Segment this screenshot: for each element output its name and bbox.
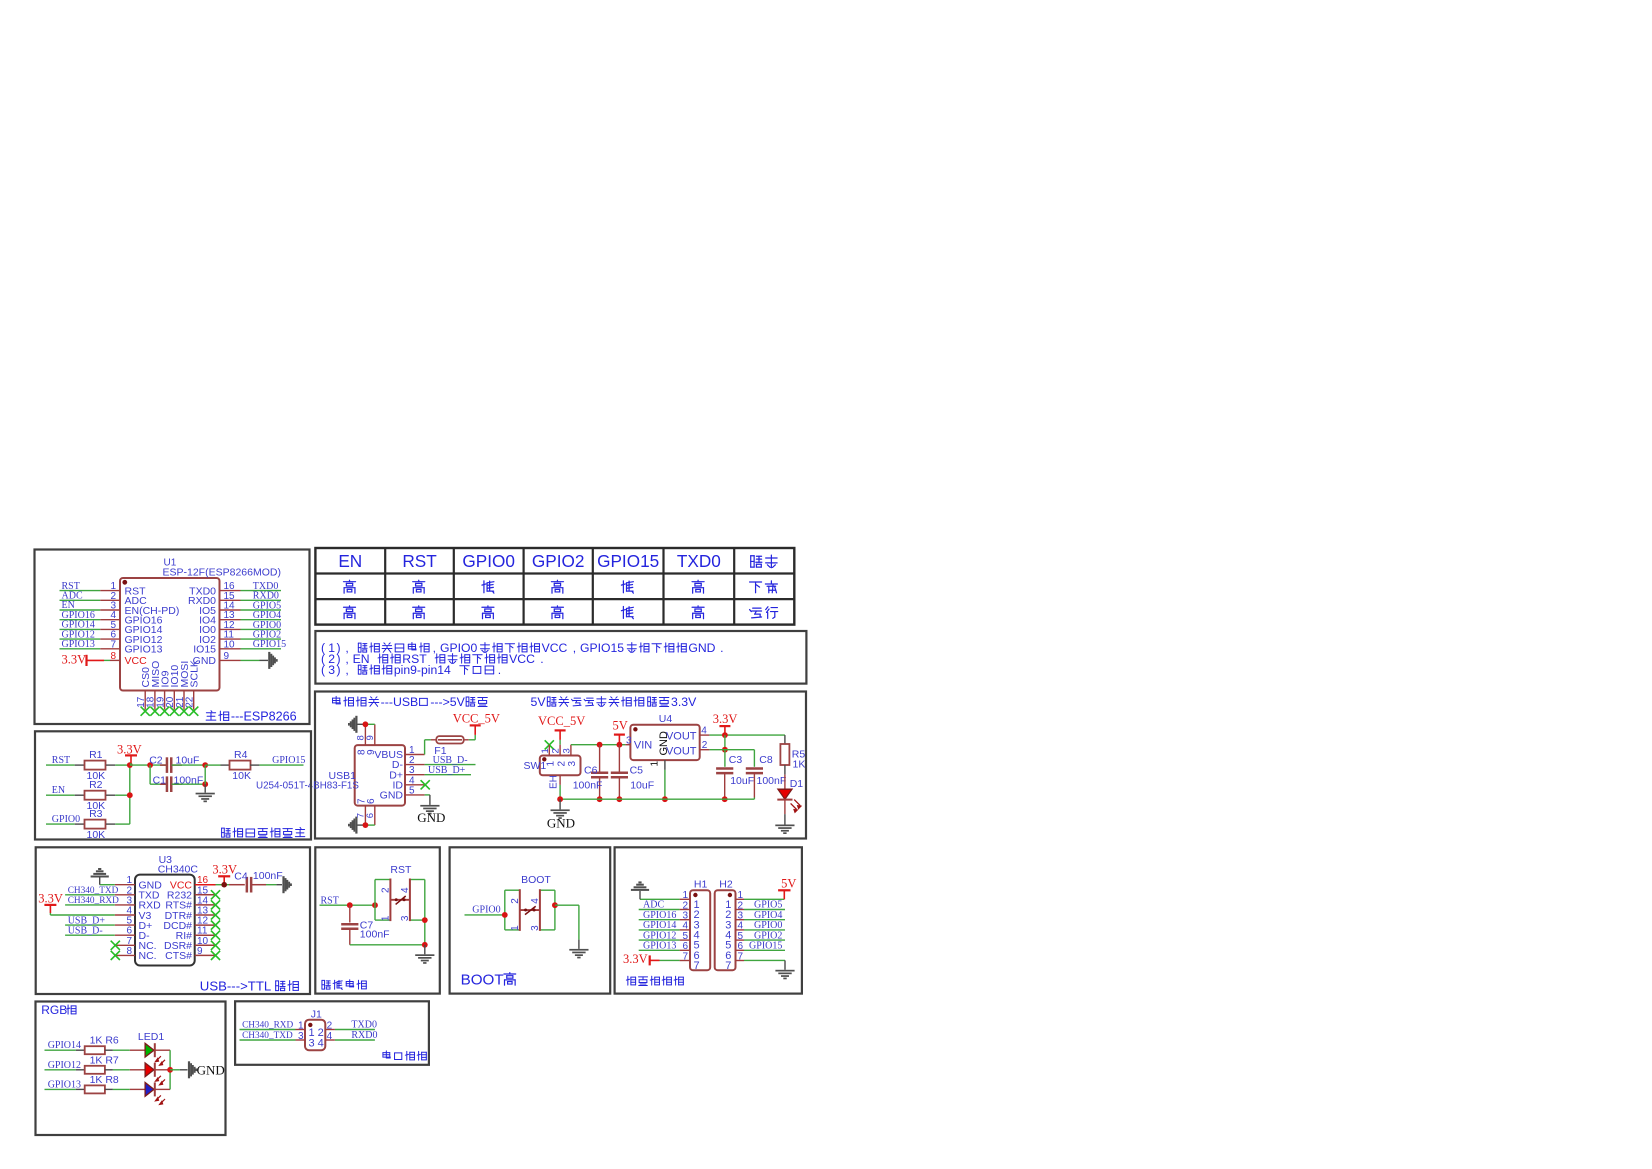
svg-text:9: 9 [224,651,230,662]
J1 first pin dot [308,1023,312,1027]
USB1 pin 3 stub [405,774,425,776]
USB1 pin 1 stub [405,754,425,756]
svg-text:GPIO15: GPIO15 [253,639,286,650]
svg-text:U254-051T-4BH83-F1S: U254-051T-4BH83-F1S [256,781,359,792]
junction VOUT2 [722,747,728,753]
wire VOUT pin4 to R5 [709,734,785,736]
svg-text:): ) [337,663,341,677]
junction C2 right [202,762,208,768]
svg-text:6: 6 [366,798,377,804]
svg-text:GPIO13: GPIO13 [643,941,676,952]
svg-text:GND: GND [197,1063,225,1078]
ground flag (LED) [188,1061,198,1078]
svg-text:10K: 10K [232,770,251,782]
svg-text:C6: C6 [584,765,598,777]
H2 pin 1 stub [736,898,745,900]
junction U4 GND rail [662,796,668,802]
wire to LED [113,1049,130,1051]
svg-text:1K R6: 1K R6 [90,1035,119,1047]
table column line [453,548,455,625]
svg-text:C8: C8 [759,754,773,766]
svg-text:--->5V: --->5V [430,695,465,709]
svg-text:USB_D-: USB_D- [68,925,103,936]
svg-text:GPIO13: GPIO13 [125,644,163,656]
wire C7 bottom [350,944,425,946]
U1 pin 3 wire [60,609,101,611]
wire USB1 GND pin [425,794,430,796]
svg-text:H2: H2 [719,879,733,891]
table cell 高 [344,606,356,619]
svg-text:10: 10 [224,639,236,650]
svg-text:GPIO15: GPIO15 [749,941,782,952]
svg-text:6: 6 [365,813,376,818]
svg-text:(: ( [321,663,325,677]
table row line [315,598,794,600]
U3 pin 5 stub [115,924,135,926]
table cell 高 [551,580,563,593]
svg-text:7: 7 [738,951,744,962]
SW1 pin 2 stub [559,745,561,756]
junction C5 bottom [617,796,623,802]
H1 pin 2 stub [680,909,690,911]
U3 pin 7 stub [115,944,135,946]
svg-text:3: 3 [626,736,632,747]
ground symbol (reset) [424,945,426,955]
svg-text:2: 2 [327,1021,333,1032]
ground symbol (power rail) [559,799,561,809]
svg-text:VOUT: VOUT [666,730,697,742]
svg-text:R4: R4 [234,749,248,761]
section title 主控---ESP8266 [206,711,216,721]
svg-text:SCLK: SCLK [189,660,201,687]
svg-text:100nF: 100nF [573,780,603,792]
wire CH340_RXD [240,1029,296,1031]
U3 pin 16 stub [195,884,216,886]
svg-text:RXD0: RXD0 [351,1030,377,1041]
U1 pin 12 wire [220,628,241,630]
USB1 pin 8 stub [364,724,366,745]
svg-text:7: 7 [110,639,116,650]
U3 pin 11 stub [195,934,216,936]
junction button right [422,917,428,923]
USB1 pin 7 stub [364,806,366,826]
U1 pin 17 stub [144,691,146,710]
U3 pin 8 stub [115,954,135,956]
svg-text:CH340_RXD: CH340_RXD [68,896,119,906]
svg-text:3: 3 [530,925,541,931]
header H2 body [715,890,736,970]
ground symbol (boot) [569,949,588,959]
svg-text:10K: 10K [87,829,106,841]
svg-text:GND: GND [547,816,575,831]
svg-text:3 4: 3 4 [309,1038,324,1050]
SW1 pin 3 stub [570,745,572,756]
table cell 高 [482,606,494,619]
wire VOUT pin2 to C8 [709,749,754,751]
junction 5V/VIN [617,742,623,748]
wire H2 pin7 gnd [744,959,785,961]
svg-text:4: 4 [327,1031,333,1042]
junction bottom shell [363,822,369,828]
resistor R5 [784,735,786,744]
junction C2 left [147,762,153,768]
svg-text:GPIO0: GPIO0 [462,551,515,571]
table column line [733,548,735,625]
U1 pin 16 wire [220,590,241,592]
svg-text:EN: EN [338,551,362,571]
svg-text:GPIO15: GPIO15 [272,755,305,766]
LED cathode bar [154,1043,156,1057]
svg-text:1K R8: 1K R8 [90,1074,119,1086]
H1 pin 1 stub [680,898,690,900]
table cell 高 [413,606,425,619]
U1 pin 15 wire [220,599,241,601]
H2 pin 7 stub [736,960,745,962]
junction C6 top [597,742,603,748]
table cell 低 [621,606,633,618]
pushbutton BOOT [504,890,506,930]
svg-text:5V: 5V [781,877,796,891]
wire USB_D- (U3) [65,934,115,936]
USB1 pin 5 stub [405,794,425,796]
U3 pin 12 stub [195,924,216,926]
svg-text:---ESP8266: ---ESP8266 [231,710,297,724]
no-connect X pin 22 [189,707,198,716]
svg-text:GND: GND [417,810,445,825]
table cell 运行 [750,608,762,618]
USB connector USB1 body [355,745,405,806]
svg-text:VCC: VCC [542,641,568,655]
no-connect X (SW1 pin1) [545,740,554,749]
LED #00b400 triangle [145,1043,154,1057]
svg-text:R2: R2 [89,779,103,791]
wire V3 pin4 [50,914,114,916]
junction VOUT4/3.3V [722,732,728,738]
ground symbol (H2 pin7) [775,970,794,980]
ground flag (USB1 shell top) [358,723,366,725]
table cell 下载 [750,582,762,593]
vertical 3.3V pull-up rail [129,765,131,824]
ground symbol (D1) [775,825,794,835]
wire RXD0 [335,1039,375,1041]
wire fuse to VCC_5V [469,739,475,741]
wire H2 GPIO0 [744,929,785,931]
svg-text:U4: U4 [659,713,673,725]
junction LED common [167,1067,173,1073]
no-connect X pin 20 [170,707,179,716]
U1 pin 22 stub [193,691,195,710]
capacitor C2 [160,764,167,766]
LED cathode bar [154,1063,156,1077]
svg-text:.: . [540,652,543,666]
svg-text:4: 4 [530,898,541,904]
H2 pin 3 stub [736,919,745,921]
svg-text:7: 7 [682,951,688,962]
USB1 pin 2 stub [405,764,425,766]
U1 pin 9 wire [220,659,241,661]
ESP module U1 body [120,578,220,691]
svg-text:IO15: IO15 [193,644,216,656]
wire U3 VCC to C4 [216,884,230,886]
J1 pin stubs row [296,1039,306,1041]
table cell 高 [413,580,425,593]
table column line [592,548,594,625]
boot box [450,847,611,993]
no-connect X pin 18 [150,707,159,716]
junction C1 right [202,781,208,787]
svg-text:ESP-12F(ESP8266MOD): ESP-12F(ESP8266MOD) [163,567,281,579]
U1 pin 10 wire [220,648,241,650]
requirements box [35,731,311,839]
wire GPIO13 [45,1088,76,1090]
wire GPIO12 [45,1069,76,1071]
svg-text:C3: C3 [729,754,743,766]
LED emission arrows [156,1056,166,1065]
resistor R2 [46,794,75,796]
no-connect X pin 17 [141,707,150,716]
svg-text:3: 3 [400,915,411,921]
svg-text:5V: 5V [531,695,547,709]
svg-text:USB_D+: USB_D+ [428,765,466,776]
svg-text:2: 2 [551,748,562,753]
no-connect X (USB1 ID) [421,780,430,789]
wire H1 GPIO12 [639,939,680,941]
svg-text:CH340C: CH340C [158,864,199,876]
svg-text:C5: C5 [630,765,644,777]
wire CH340_RXD [65,904,115,906]
U3 pin 13 stub [195,914,216,916]
svg-text:5: 5 [409,785,415,796]
table column line [662,548,664,625]
wire H2 GPIO15 [744,949,785,951]
U3 pin 1 stub [115,884,135,886]
wire H1 ADC [639,909,680,911]
capacitor C6 [599,745,601,773]
wire VBUS to fuse [424,740,426,755]
table cell 低 [482,581,494,593]
svg-text:100nF: 100nF [757,775,787,787]
jumper box [235,1001,429,1065]
section box U1 main controller [35,550,310,725]
U1 pin 21 stub [183,691,185,710]
wire R1 to C2 [130,764,167,766]
U1 pin 7 wire [60,648,101,650]
svg-text:GPIO15: GPIO15 [597,551,659,571]
svg-text:H1: H1 [694,879,708,891]
table cell 高 [551,606,563,619]
no-connect X U3 pin 12 [211,921,220,930]
no-connect X U3 pin 10 [211,941,220,950]
LED #2020c8 triangle [145,1083,154,1097]
svg-text:1K: 1K [793,759,806,771]
wire H1 GPIO13 [639,949,680,951]
wire D1 to ground [784,814,786,824]
svg-text:VIN: VIN [634,740,652,752]
ground flag (USB1 shell bottom) [358,824,366,826]
reset circuit box [315,847,440,993]
U1 pin 2 wire [60,599,101,601]
wire to LED [113,1069,130,1071]
wire H1 pin1 gnd [640,898,680,900]
J1 pin stubs row [296,1029,306,1031]
svg-text:CTS#: CTS# [165,950,192,962]
svg-text:1K R7: 1K R7 [90,1054,119,1066]
header box [615,847,802,993]
common cathode wire [169,1050,171,1089]
LED emission arrows [156,1076,166,1085]
svg-text:RST: RST [390,864,412,876]
svg-text:---USB: ---USB [381,695,419,709]
svg-text:1: 1 [380,915,391,921]
svg-text:pin9-pin14: pin9-pin14 [394,663,451,677]
junction C3 rail [722,796,728,802]
wire H2 pin1 5V [744,898,784,900]
power flag VCC_5V [470,724,481,726]
jumper J1 body [305,1020,325,1050]
wire GPIO0 in [465,914,505,916]
USB1 pin 4 stub [405,784,425,786]
table column line [522,548,524,625]
svg-text:1: 1 [650,761,661,767]
no-connect X U3 pin 9 [211,951,220,960]
svg-text:BOOT: BOOT [461,972,504,989]
U1 pin 19 stub [164,691,166,710]
svg-text:9: 9 [365,735,376,740]
svg-text:C2: C2 [149,755,163,767]
junction U3 VCC [221,882,227,888]
LED D1 [784,775,786,790]
wire RST in [320,904,376,906]
table header 模式 [751,556,762,567]
svg-text:2: 2 [702,740,708,751]
capacitor C1 [160,783,167,785]
svg-text:EN: EN [353,652,370,666]
svg-text:C4: C4 [234,871,248,883]
svg-text:C1: C1 [153,775,167,787]
svg-text:GND: GND [688,641,715,655]
pushbutton RST [374,880,376,921]
fuse F1 [431,739,436,741]
table mode truth box [315,548,794,625]
H2 first pin dot [728,893,732,897]
svg-text:3.3V: 3.3V [713,712,738,726]
svg-text:3.3V: 3.3V [623,952,648,966]
capacitor C7 [349,905,351,922]
svg-text:GPIO0: GPIO0 [440,641,477,655]
wire H2 GPIO5 [744,909,785,911]
svg-text:VCC_5V: VCC_5V [453,712,500,726]
wire shell join bottom [365,824,374,826]
resistor R6 [76,1049,85,1051]
svg-text:7: 7 [694,960,700,972]
U3 pin 9 stub [195,954,216,956]
USB1 pin 9 stub [374,724,376,745]
svg-text:TXD0: TXD0 [677,551,721,571]
svg-text:100nF: 100nF [253,870,283,882]
U3 pin 14 stub [195,904,216,906]
U1 pin 6 wire [60,638,101,640]
svg-text:3.3V: 3.3V [38,892,63,906]
LED emission arrows [156,1095,166,1104]
svg-text:GPIO2: GPIO2 [532,551,585,571]
wire USB_D+ (U3) [65,924,115,926]
H1 pin 6 stub [680,949,690,951]
svg-text:USB--->TTL: USB--->TTL [200,979,271,994]
svg-text:9: 9 [197,946,203,957]
svg-text:VCC_5V: VCC_5V [538,714,585,728]
H2 pin 4 stub [736,929,745,931]
no-connect X U3 pin7 [111,941,120,950]
no-connect X U3 pin 15 [211,890,220,899]
ground rail wire [560,798,754,800]
USB1 pin 6 stub [374,806,376,826]
U1 pin 13 wire [220,619,241,621]
wire BOOT to gnd [555,904,579,906]
ground flag (C4) [282,876,292,893]
section title 串口跳帽 [383,1051,390,1058]
capacitor C4 [246,877,249,893]
svg-text:2: 2 [556,761,567,767]
U4 pin2 stub [700,749,710,751]
U4 pin1 GND stub [664,760,666,770]
table row line [315,572,794,574]
svg-text:3: 3 [561,748,572,753]
LED D1 emission arrows [791,800,801,813]
ground flag (U1 pin9 GND) [268,652,277,669]
H2 pin 5 stub [736,939,745,941]
section title 引出的排针 [626,976,635,985]
ground symbol (C1/C2) [204,784,206,793]
wire TXD0 [335,1029,375,1031]
svg-text:VCC: VCC [509,652,535,666]
wire C caps common [204,765,206,784]
junction SW1 rail [557,796,563,802]
svg-text:GPIO15: GPIO15 [580,641,624,655]
LED #e80000 triangle [145,1063,154,1077]
table cell 高 [344,580,356,593]
H1 pin 5 stub [680,939,690,941]
ground flag (U3 pin1) [91,868,109,878]
SW1 first pin dot [542,757,546,761]
section title 复位电路 [322,980,330,989]
no-connect X U3 pin 13 [211,910,220,919]
U1 pin 11 wire [220,638,241,640]
svg-text:8: 8 [126,946,132,957]
svg-text:22: 22 [185,696,196,708]
svg-text:SW1: SW1 [524,760,547,772]
wire C1 branch left [149,765,151,784]
resistor R4 [205,764,220,766]
notes box [315,631,806,684]
H1 first pin dot [693,893,697,897]
junction boot right [552,902,558,908]
svg-text:CH340_RXD: CH340_RXD [242,1021,293,1031]
svg-text:3: 3 [298,1031,304,1042]
H1 pin 3 stub [680,919,690,921]
rgb box [36,1002,226,1136]
H1 pin 7 stub [680,960,690,962]
junction boot left [502,912,508,918]
wire CH340_TXD [65,894,115,896]
svg-text:CH340_TXD: CH340_TXD [68,886,119,896]
U3 pin 6 stub [115,934,135,936]
wire H1 pin7 [660,959,680,961]
H2 pin 6 stub [736,949,745,951]
junction R2 [127,792,133,798]
table cell 高 [692,580,704,593]
U1 first pin dot [122,580,127,585]
svg-text:4: 4 [701,726,707,737]
